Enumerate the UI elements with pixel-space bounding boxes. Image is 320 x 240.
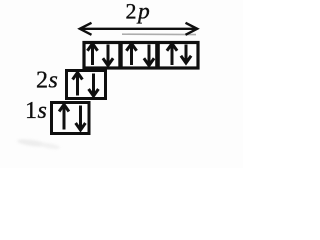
svg-text:2p: 2p [126,0,151,24]
svg-text:1s: 1s [25,98,47,124]
svg-text:2s: 2s [36,68,58,94]
